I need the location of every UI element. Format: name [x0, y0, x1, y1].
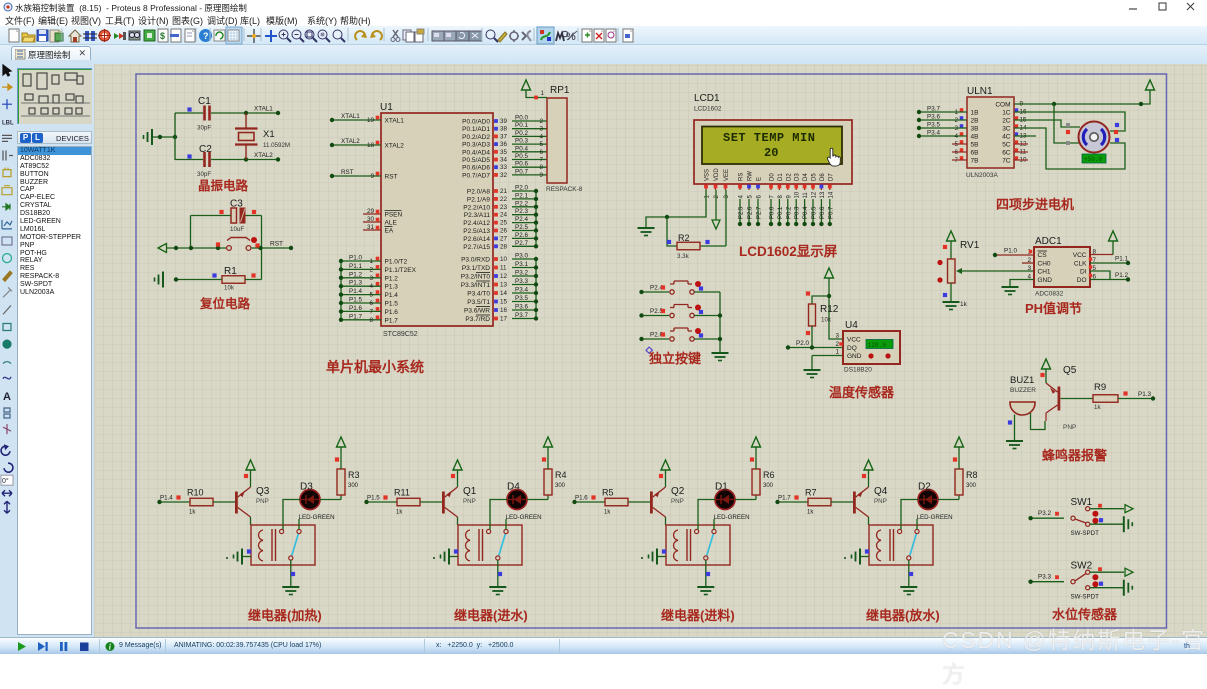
svg-text:单片机最小系统: 单片机最小系统 — [326, 359, 424, 375]
svg-text:RS: RS — [739, 173, 745, 181]
svg-text:PSEN: PSEN — [385, 212, 403, 219]
svg-text:独立按键: 独立按键 — [649, 351, 701, 366]
svg-text:CS: CS — [1038, 252, 1048, 259]
svg-text:6: 6 — [369, 300, 373, 307]
svg-text:LBL: LBL — [2, 120, 14, 126]
svg-text:27: 27 — [500, 235, 508, 242]
svg-text:7B: 7B — [971, 158, 979, 165]
svg-text:10: 10 — [500, 256, 508, 263]
svg-text:LED-GREEN: LED-GREEN — [714, 514, 750, 521]
svg-text:P3.7: P3.7 — [927, 106, 940, 113]
svg-text:蜂鸣器报警: 蜂鸣器报警 — [1042, 448, 1107, 463]
svg-text:2: 2 — [369, 266, 373, 273]
svg-text:+50.0: +50.0 — [1084, 156, 1102, 163]
svg-text:23: 23 — [500, 204, 508, 211]
svg-text:6: 6 — [539, 149, 543, 156]
svg-text:1: 1 — [835, 349, 839, 356]
svg-text:P0.3: P0.3 — [795, 206, 801, 219]
svg-text:SW2: SW2 — [1071, 561, 1093, 572]
svg-text:D0: D0 — [770, 173, 776, 181]
svg-text:36: 36 — [500, 141, 508, 148]
svg-text:水位传感器: 水位传感器 — [1052, 607, 1118, 622]
svg-text:P3.2/INT0: P3.2/INT0 — [461, 274, 491, 281]
svg-text:P0.1/AD1: P0.1/AD1 — [462, 126, 490, 133]
svg-text:PNP: PNP — [463, 498, 476, 505]
svg-text:R6: R6 — [763, 470, 775, 480]
svg-text:26: 26 — [500, 228, 508, 235]
svg-text:STC89C52: STC89C52 — [383, 331, 418, 338]
svg-text:P1.3: P1.3 — [349, 280, 362, 287]
svg-text:R2: R2 — [678, 233, 690, 243]
svg-text:P3.4/T0: P3.4/T0 — [467, 291, 490, 298]
svg-text:18: 18 — [367, 142, 375, 149]
svg-text:3.3k: 3.3k — [677, 253, 690, 260]
svg-text:U1: U1 — [380, 102, 393, 113]
svg-text:SW-SPDT: SW-SPDT — [1071, 530, 1100, 537]
svg-text:9: 9 — [539, 172, 543, 179]
svg-text:1k: 1k — [189, 510, 196, 516]
svg-text:P0.5/AD5: P0.5/AD5 — [462, 157, 490, 164]
svg-text:XTAL1: XTAL1 — [254, 106, 273, 113]
svg-text:31: 31 — [367, 224, 375, 231]
svg-text:30pF: 30pF — [197, 125, 211, 132]
svg-text:300: 300 — [763, 483, 774, 489]
svg-text:12: 12 — [500, 273, 508, 280]
svg-text:38: 38 — [500, 126, 508, 133]
svg-text:4: 4 — [539, 133, 543, 140]
svg-text:1k: 1k — [807, 510, 814, 516]
svg-text:GND: GND — [1038, 277, 1053, 284]
svg-text:BUZ1: BUZ1 — [1010, 375, 1034, 386]
svg-text:P3.3: P3.3 — [1038, 574, 1051, 581]
svg-text:D3: D3 — [795, 173, 801, 181]
svg-text:四项步进电机: 四项步进电机 — [996, 197, 1074, 212]
svg-text:PNP: PNP — [1063, 424, 1076, 431]
svg-text:P3.3/INT1: P3.3/INT1 — [461, 282, 491, 289]
svg-text:P2.0: P2.0 — [796, 340, 809, 347]
svg-text:P0.2/AD2: P0.2/AD2 — [462, 134, 490, 141]
svg-text:P2.4/A12: P2.4/A12 — [463, 220, 490, 227]
svg-text:DQ: DQ — [847, 345, 857, 352]
svg-text:11.0592M: 11.0592M — [263, 142, 290, 149]
svg-text:D2: D2 — [918, 482, 931, 493]
svg-text:5B: 5B — [971, 142, 979, 149]
svg-text:SET TEMP MIN: SET TEMP MIN — [723, 131, 815, 145]
svg-text:4: 4 — [369, 283, 373, 290]
svg-text:1: 1 — [540, 90, 544, 97]
svg-text:COM: COM — [995, 102, 1010, 109]
svg-text:6C: 6C — [1002, 150, 1011, 157]
svg-text:P1.7: P1.7 — [778, 495, 791, 502]
svg-text:P2.5/A13: P2.5/A13 — [463, 228, 490, 235]
svg-text:39: 39 — [500, 118, 508, 125]
svg-text:PNP: PNP — [256, 498, 269, 505]
svg-text:X1: X1 — [263, 129, 275, 140]
svg-text:P1.2: P1.2 — [349, 271, 362, 278]
svg-text:15: 15 — [500, 299, 508, 306]
svg-text:R12: R12 — [820, 304, 839, 315]
svg-text:Q1: Q1 — [463, 486, 477, 497]
svg-text:P1.0/T2: P1.0/T2 — [385, 259, 408, 266]
svg-text:0°: 0° — [2, 477, 9, 485]
svg-text:1B: 1B — [971, 110, 979, 117]
svg-text:DS18B20: DS18B20 — [844, 367, 872, 374]
svg-text:XTAL1: XTAL1 — [341, 113, 360, 120]
svg-text:VCC: VCC — [847, 337, 861, 344]
svg-text:D1: D1 — [778, 173, 784, 181]
svg-text:3: 3 — [835, 333, 839, 340]
svg-text:P3.6/WR: P3.6/WR — [464, 308, 490, 315]
svg-text:5: 5 — [369, 292, 373, 299]
svg-text:13: 13 — [820, 191, 826, 198]
svg-text:P1.0: P1.0 — [349, 255, 362, 262]
svg-text:RST: RST — [270, 241, 283, 248]
svg-text:8: 8 — [539, 164, 543, 171]
svg-text:P3.6: P3.6 — [927, 114, 940, 121]
svg-text:PNP: PNP — [671, 498, 684, 505]
svg-text:P1.3: P1.3 — [385, 284, 399, 291]
svg-text:R5: R5 — [602, 488, 614, 498]
svg-text:P1.5: P1.5 — [349, 297, 362, 304]
svg-text:D2: D2 — [786, 173, 792, 181]
svg-text:21: 21 — [500, 188, 508, 195]
svg-text:P0.4/AD4: P0.4/AD4 — [462, 149, 490, 156]
svg-text:继电器(进水): 继电器(进水) — [454, 608, 528, 623]
svg-text:P0.3/AD3: P0.3/AD3 — [462, 142, 490, 149]
svg-text:继电器(进料): 继电器(进料) — [661, 608, 735, 623]
svg-text:D3: D3 — [300, 482, 313, 493]
svg-text:7: 7 — [369, 308, 373, 315]
svg-text:复位电路: 复位电路 — [199, 296, 251, 311]
svg-text:温度传感器: 温度传感器 — [829, 385, 895, 400]
svg-text:35: 35 — [500, 149, 508, 156]
svg-text:R10: R10 — [187, 488, 204, 498]
svg-text:继电器(放水): 继电器(放水) — [866, 608, 940, 623]
svg-text:P1.1: P1.1 — [1115, 256, 1128, 263]
svg-text:LCD1: LCD1 — [694, 93, 720, 104]
svg-text:P0.1: P0.1 — [778, 206, 784, 219]
svg-text:R7: R7 — [805, 488, 817, 498]
svg-text:2: 2 — [835, 341, 839, 348]
svg-text:37: 37 — [500, 133, 508, 140]
svg-text:P3.4: P3.4 — [927, 130, 940, 137]
svg-text:XTAL2: XTAL2 — [385, 143, 405, 150]
svg-text:P1.6: P1.6 — [349, 305, 362, 312]
svg-text:5: 5 — [539, 141, 543, 148]
svg-text:RESPACK-8: RESPACK-8 — [546, 186, 583, 193]
svg-text:30: 30 — [367, 216, 375, 223]
svg-text:P3.0/RXD: P3.0/RXD — [461, 257, 490, 264]
svg-text:SW1: SW1 — [1071, 497, 1093, 508]
svg-text:P2.7/A15: P2.7/A15 — [463, 244, 490, 251]
svg-text:DI: DI — [1080, 269, 1087, 276]
svg-text:VCC: VCC — [1073, 252, 1087, 259]
svg-text:300: 300 — [555, 483, 566, 489]
svg-text:R11: R11 — [394, 488, 410, 498]
svg-text:10: 10 — [795, 191, 801, 198]
svg-text:9: 9 — [370, 173, 374, 180]
svg-text:P1.5: P1.5 — [385, 301, 399, 308]
svg-text:ADC0832: ADC0832 — [1035, 291, 1064, 298]
svg-text:P2.0/A8: P2.0/A8 — [467, 189, 491, 196]
svg-text:ADC1: ADC1 — [1035, 236, 1062, 247]
svg-text:LCD1602: LCD1602 — [694, 106, 722, 113]
svg-text:P1.2: P1.2 — [1115, 272, 1128, 279]
svg-text:3: 3 — [369, 275, 373, 282]
svg-text:D6: D6 — [820, 173, 826, 181]
svg-text:2B: 2B — [971, 118, 979, 125]
svg-text:D1: D1 — [715, 482, 728, 493]
svg-text:RST: RST — [385, 174, 398, 181]
svg-text:R4: R4 — [555, 470, 567, 480]
svg-text:VDD: VDD — [714, 168, 720, 181]
svg-text:25: 25 — [500, 220, 508, 227]
svg-text:P1.7: P1.7 — [385, 317, 399, 324]
svg-text:28: 28 — [500, 243, 508, 250]
svg-text:1k: 1k — [604, 510, 611, 516]
svg-text:Q3: Q3 — [256, 486, 270, 497]
svg-text:P2.6/A14: P2.6/A14 — [463, 236, 490, 243]
svg-text:LCD1602显示屏: LCD1602显示屏 — [739, 244, 838, 259]
svg-text:P2.7: P2.7 — [757, 206, 763, 219]
svg-text:P2.3/A11: P2.3/A11 — [464, 212, 491, 219]
svg-text:P3.7/RD: P3.7/RD — [465, 316, 490, 323]
svg-text:Q4: Q4 — [874, 486, 888, 497]
svg-text:P1.4: P1.4 — [385, 292, 399, 299]
svg-text:19: 19 — [367, 117, 375, 124]
svg-text:24: 24 — [500, 212, 508, 219]
svg-text:1k: 1k — [1094, 404, 1101, 411]
svg-text:1: 1 — [369, 258, 373, 265]
svg-text:5C: 5C — [1002, 142, 1011, 149]
svg-text:P1.1: P1.1 — [349, 263, 362, 270]
svg-text:P1.1/T2EX: P1.1/T2EX — [385, 267, 417, 274]
svg-text:R1: R1 — [224, 266, 237, 277]
svg-text:P0.7/AD7: P0.7/AD7 — [462, 172, 490, 179]
svg-text:PNP: PNP — [874, 498, 887, 505]
svg-text:P1.7: P1.7 — [349, 313, 362, 320]
svg-text:3C: 3C — [1002, 126, 1011, 133]
svg-text:D4: D4 — [803, 173, 809, 181]
svg-text:10uF: 10uF — [230, 226, 244, 233]
svg-text:P1.6: P1.6 — [385, 309, 399, 316]
svg-text:3: 3 — [539, 126, 543, 133]
svg-text:D7: D7 — [828, 173, 834, 181]
svg-text:P3.5: P3.5 — [927, 122, 940, 129]
svg-text:22: 22 — [500, 196, 508, 203]
svg-text:3: 3 — [1027, 265, 1031, 272]
svg-text:继电器(加热): 继电器(加热) — [248, 608, 322, 623]
svg-text:11: 11 — [803, 192, 809, 199]
svg-text:XTAL2: XTAL2 — [254, 152, 273, 159]
svg-text:8: 8 — [369, 317, 373, 324]
svg-text:P0.6: P0.6 — [820, 206, 826, 219]
svg-text:Q5: Q5 — [1063, 365, 1077, 376]
svg-text:LED-GREEN: LED-GREEN — [506, 514, 542, 521]
svg-text:P3.1/TXD: P3.1/TXD — [462, 265, 490, 272]
svg-text:300: 300 — [348, 483, 359, 489]
svg-text:P0.4: P0.4 — [803, 206, 809, 219]
svg-text:7: 7 — [539, 157, 543, 164]
svg-text:P1.0: P1.0 — [1004, 248, 1017, 255]
svg-text:E: E — [757, 177, 763, 181]
svg-text:CH1: CH1 — [1038, 269, 1051, 276]
svg-text:11: 11 — [500, 265, 507, 272]
svg-text:P2.5: P2.5 — [739, 206, 745, 219]
svg-text:RV1: RV1 — [960, 240, 980, 251]
svg-text:P1.4: P1.4 — [160, 495, 173, 502]
svg-text:4C: 4C — [1002, 134, 1011, 141]
svg-text:33: 33 — [500, 164, 508, 171]
svg-text:CH0: CH0 — [1038, 261, 1051, 268]
svg-text:ULN2003A: ULN2003A — [966, 172, 998, 179]
svg-text:14: 14 — [500, 290, 508, 297]
svg-text:10k: 10k — [821, 317, 832, 324]
svg-text:R8: R8 — [966, 470, 978, 480]
svg-text:P2.6: P2.6 — [748, 206, 754, 219]
svg-text:P0.6/AD6: P0.6/AD6 — [462, 165, 490, 172]
svg-text:P1.3: P1.3 — [1138, 391, 1151, 398]
svg-text:P1.5: P1.5 — [367, 495, 380, 502]
svg-text:P2.2/A10: P2.2/A10 — [463, 204, 490, 211]
svg-text:ALE: ALE — [385, 220, 398, 227]
svg-text:P1.6: P1.6 — [575, 495, 588, 502]
svg-text:Q2: Q2 — [671, 486, 685, 497]
svg-text:RW: RW — [748, 171, 754, 181]
svg-text:128.0: 128.0 — [868, 342, 887, 349]
svg-text:LED-GREEN: LED-GREEN — [299, 514, 335, 521]
svg-text:P1.4: P1.4 — [349, 288, 362, 295]
svg-text:2: 2 — [539, 118, 543, 125]
svg-text:GND: GND — [847, 353, 862, 360]
svg-text:DO: DO — [1077, 277, 1087, 284]
svg-text:10k: 10k — [224, 285, 235, 292]
svg-text:LED-GREEN: LED-GREEN — [917, 514, 953, 521]
svg-text:300: 300 — [966, 483, 977, 489]
svg-text:34: 34 — [500, 157, 508, 164]
svg-text:P3.2: P3.2 — [1038, 510, 1051, 517]
svg-text:P0.0: P0.0 — [770, 206, 776, 219]
svg-text:1k: 1k — [396, 510, 403, 516]
svg-text:12: 12 — [812, 191, 818, 198]
svg-text:EA: EA — [385, 228, 394, 235]
svg-text:P1.2: P1.2 — [385, 275, 399, 282]
svg-text:7C: 7C — [1002, 158, 1011, 165]
svg-text:17: 17 — [500, 316, 508, 323]
svg-text:R9: R9 — [1094, 382, 1106, 393]
svg-text:PH值调节: PH值调节 — [1025, 301, 1082, 316]
svg-text:P0.5: P0.5 — [812, 206, 818, 219]
svg-text:?: ? — [203, 31, 209, 41]
svg-text:P3.5/T1: P3.5/T1 — [467, 299, 490, 306]
svg-text:晶振电路: 晶振电路 — [198, 178, 249, 193]
svg-text:U4: U4 — [845, 320, 858, 331]
svg-text:4B: 4B — [971, 134, 979, 141]
svg-text:C1: C1 — [198, 96, 211, 107]
svg-text:D4: D4 — [507, 482, 520, 493]
svg-text:VEE: VEE — [724, 169, 730, 181]
svg-text:RST: RST — [341, 169, 354, 176]
svg-text:P0.0/AD0: P0.0/AD0 — [462, 119, 490, 126]
svg-text:VSS: VSS — [705, 169, 711, 181]
svg-text:P0.2: P0.2 — [786, 206, 792, 219]
svg-text:D5: D5 — [812, 173, 818, 181]
svg-text:ULN1: ULN1 — [967, 86, 993, 97]
svg-text:3B: 3B — [971, 126, 979, 133]
svg-text:R3: R3 — [348, 470, 360, 480]
svg-text:6B: 6B — [971, 150, 979, 157]
svg-text:XTAL2: XTAL2 — [341, 138, 360, 145]
svg-text:32: 32 — [500, 172, 508, 179]
svg-text:1k: 1k — [960, 301, 968, 308]
svg-text:XTAL1: XTAL1 — [385, 118, 405, 125]
svg-text:2C: 2C — [1002, 118, 1011, 125]
svg-text:20: 20 — [764, 146, 778, 160]
svg-text:SW-SPDT: SW-SPDT — [1071, 594, 1100, 601]
svg-text:CLK: CLK — [1074, 261, 1087, 268]
svg-text:30pF: 30pF — [197, 171, 211, 178]
svg-text:RP1: RP1 — [550, 85, 570, 96]
svg-text:13: 13 — [500, 282, 508, 289]
svg-text:29: 29 — [367, 208, 375, 215]
svg-text:16: 16 — [500, 307, 508, 314]
svg-text:P2.1/A9: P2.1/A9 — [467, 196, 491, 203]
svg-text:A: A — [3, 391, 11, 403]
svg-text:14: 14 — [828, 191, 834, 198]
svg-text:$: $ — [160, 31, 165, 41]
svg-text:BUZZER: BUZZER — [1010, 387, 1036, 394]
svg-text:1C: 1C — [1002, 110, 1011, 117]
svg-text:C2: C2 — [199, 144, 212, 155]
svg-text:P0.7: P0.7 — [828, 206, 834, 219]
